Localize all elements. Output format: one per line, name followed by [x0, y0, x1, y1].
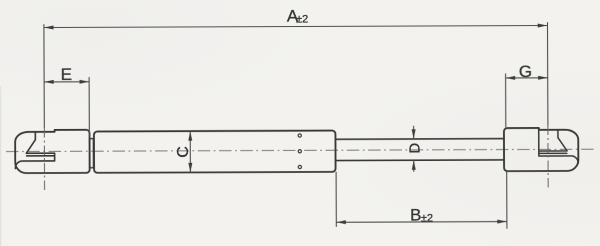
svg-text:C: C: [175, 146, 192, 158]
svg-text:±2: ±2: [421, 212, 433, 224]
svg-text:E: E: [61, 65, 72, 84]
svg-text:B: B: [410, 206, 421, 225]
svg-text:G: G: [519, 62, 532, 81]
svg-text:±2: ±2: [296, 13, 308, 25]
svg-text:D: D: [406, 143, 423, 154]
